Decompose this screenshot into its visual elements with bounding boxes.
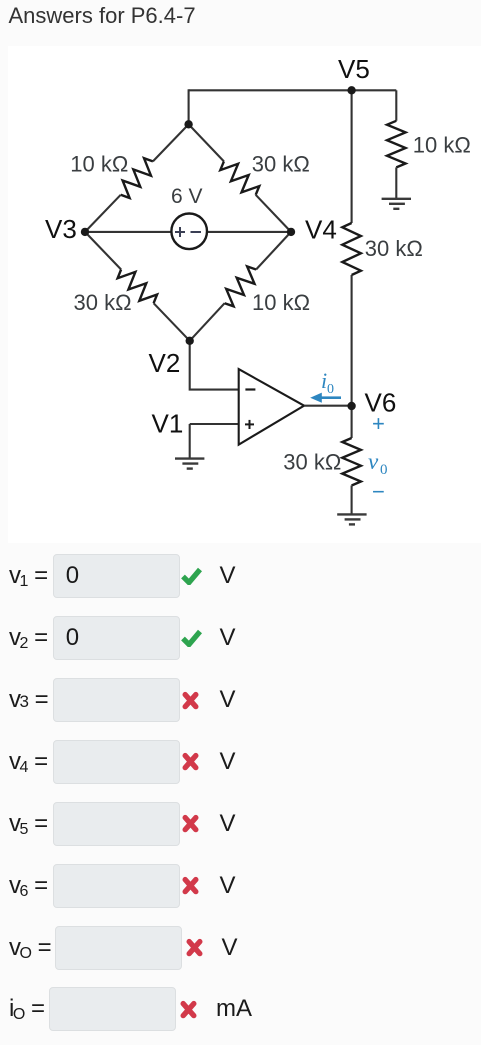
wire arm bottom-left upper <box>85 232 121 270</box>
form row v6 <box>9 872 48 900</box>
svg-text:v: v <box>368 449 379 474</box>
node V2 dot <box>186 337 194 345</box>
svg-text:30 kΩ: 30 kΩ <box>283 450 341 475</box>
wire mid vertical to V6 <box>351 275 353 438</box>
wire top horizontal <box>189 89 397 91</box>
opamp minus symbol <box>245 388 255 390</box>
wire V1 to opamp plus <box>190 423 239 425</box>
wire opamp output to V6 <box>304 405 352 407</box>
wire V2 to opamp minus <box>190 341 239 390</box>
resistor 30 kOhm top-right arm <box>220 161 259 194</box>
resistor 30k mid <box>342 223 361 275</box>
ground right branch <box>382 199 411 209</box>
resistor 30 kOhm bottom-left arm <box>118 270 158 304</box>
node V3 dot <box>81 228 89 236</box>
resistor 10k right branch <box>387 121 406 168</box>
wire bridge center left <box>85 231 172 233</box>
voltage source 6V <box>171 214 207 250</box>
svg-text:V2: V2 <box>149 348 181 378</box>
svg-text:V1: V1 <box>152 409 184 439</box>
svg-text:30 kΩ: 30 kΩ <box>74 290 132 315</box>
svg-text:V3: V3 <box>45 214 77 244</box>
node dot top vertex <box>184 120 192 128</box>
svg-text:30 kΩ: 30 kΩ <box>365 236 423 261</box>
resistor 30k vo <box>342 438 361 486</box>
svg-text:30 kΩ: 30 kΩ <box>252 151 310 176</box>
wire V1 down to ground <box>189 424 191 458</box>
node V6 dot <box>347 402 355 410</box>
svg-text:10 kΩ: 10 kΩ <box>70 151 128 176</box>
wire arm top-right lower <box>256 195 291 232</box>
wire top vertex drop <box>188 89 190 124</box>
node V5 dot <box>347 86 355 94</box>
form row v4 <box>9 748 48 776</box>
wire V5 vertical down to resistor <box>351 90 353 223</box>
wire arm bottom-right lower <box>190 303 225 341</box>
wire right branch down <box>395 90 397 121</box>
wire bridge center right <box>207 231 291 233</box>
wire arm bottom-left lower <box>154 303 190 341</box>
svg-text:6 V: 6 V <box>171 185 203 208</box>
form row v5 <box>9 810 48 838</box>
6V source polarity <box>175 227 201 237</box>
node V4 dot <box>287 228 295 236</box>
resistor 10 kOhm top-left arm <box>121 158 153 198</box>
wire arm top-left upper <box>153 124 189 161</box>
wire vo resistor to ground <box>351 486 353 514</box>
svg-text:−: − <box>372 479 385 504</box>
resistor 10 kOhm bottom-right arm <box>225 266 257 306</box>
svg-text:+: + <box>372 411 385 436</box>
svg-text:0: 0 <box>327 382 334 397</box>
op-amp U1 <box>239 369 304 445</box>
current arrow io <box>310 393 341 403</box>
form row iO <box>9 995 45 1023</box>
wire arm top-right upper <box>189 124 224 161</box>
svg-text:10 kΩ: 10 kΩ <box>413 132 471 157</box>
svg-text:V5: V5 <box>338 54 370 84</box>
form row v3 <box>9 686 49 714</box>
svg-text:V4: V4 <box>305 215 337 245</box>
wire arm bottom-right upper <box>256 232 291 270</box>
form row v2 <box>9 624 48 652</box>
ground vo <box>337 514 366 524</box>
wire arm top-left lower <box>85 195 121 232</box>
opamp plus symbol <box>245 420 254 429</box>
form row vO <box>9 934 52 962</box>
svg-text:0: 0 <box>380 462 388 478</box>
ground V1 <box>175 459 204 469</box>
form row v1 <box>9 562 48 590</box>
wire right branch to ground <box>395 167 397 198</box>
svg-text:10 kΩ: 10 kΩ <box>252 290 310 315</box>
